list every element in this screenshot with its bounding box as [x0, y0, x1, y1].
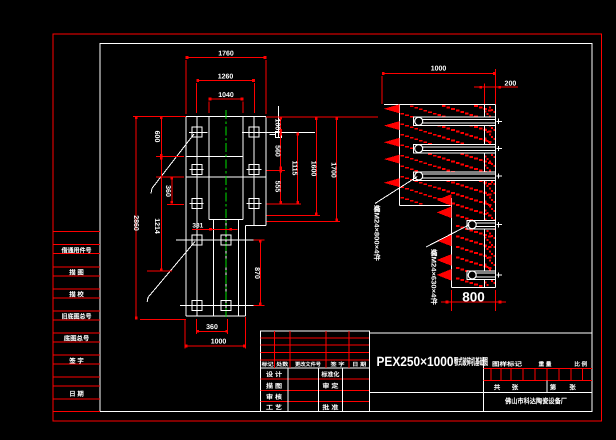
svg-text:螺M24×630×4件: 螺M24×630×4件	[430, 249, 438, 305]
svg-text:比 例: 比 例	[574, 360, 587, 368]
dim 560	[280, 133, 282, 170]
svg-text:标准化: 标准化	[320, 371, 340, 379]
anchor bolt square at (196.8,203.6)	[192, 199, 202, 209]
leader line from bolt row4	[147, 242, 195, 303]
dim 1000 bottom	[184, 319, 186, 349]
plate interior lines	[186, 156, 243, 158]
svg-text:360: 360	[164, 185, 171, 197]
svg-text:工 艺: 工 艺	[266, 404, 282, 412]
svg-text:签 字: 签 字	[329, 361, 344, 368]
svg-text:螺M24×800×4件: 螺M24×800×4件	[373, 205, 381, 261]
bolt centreline verticals	[196, 116, 198, 316]
dim 1700	[336, 117, 338, 221]
dim 870	[254, 239, 265, 241]
hatch: steeper dashes in 200 wall strip	[489, 106, 491, 108]
dim 1760	[185, 60, 187, 114]
leader to M24x800 bolts	[375, 177, 417, 204]
outer red border frame	[53, 34, 602, 421]
anchor bolt square at (196.8,305.4)	[192, 300, 202, 310]
svg-text:1040: 1040	[218, 92, 234, 99]
svg-text:PEX250×1000: PEX250×1000	[377, 354, 454, 369]
horizontal anchor bolt at y=121.3	[414, 117, 496, 126]
anchor bolt square at (196.8,131.9)	[192, 127, 202, 137]
dim 100	[280, 116, 282, 132]
horizontal anchor bolt at y=224.7	[467, 220, 495, 229]
dim 2860	[133, 115, 186, 117]
svg-text:设 计: 设 计	[266, 371, 283, 379]
dim 200	[484, 84, 486, 104]
svg-text:600: 600	[153, 131, 160, 143]
svg-text:日 期: 日 期	[352, 361, 366, 368]
dim 1214	[160, 157, 162, 272]
svg-text:描 校: 描 校	[69, 291, 84, 299]
dim 1040	[208, 102, 210, 114]
svg-text:800: 800	[462, 290, 485, 305]
dim 1600	[315, 117, 317, 216]
inner white border frame	[100, 44, 592, 412]
svg-text:张: 张	[512, 383, 519, 391]
dim 1000 top	[381, 76, 383, 104]
break-line triangles upper column	[384, 104, 400, 113]
dim 800	[450, 290, 452, 311]
svg-text:重 量: 重 量	[539, 361, 552, 368]
svg-text:描 图: 描 图	[69, 269, 84, 277]
svg-text:360: 360	[206, 324, 218, 331]
svg-text:第: 第	[550, 383, 557, 391]
svg-text:1260: 1260	[218, 74, 234, 81]
concrete outline	[384, 104, 496, 106]
svg-text:处数: 处数	[275, 361, 289, 368]
horizontal anchor bolt at y=176.0	[414, 172, 496, 181]
right sub-table	[482, 357, 484, 411]
leader line from bolt row1	[151, 134, 194, 194]
svg-text:1000: 1000	[211, 339, 227, 346]
svg-text:旧底图总号: 旧底图总号	[62, 313, 93, 321]
svg-text:日 期: 日 期	[69, 390, 84, 398]
anchor bolt square at (254.0,203.6)	[249, 199, 259, 209]
svg-text:200: 200	[505, 81, 517, 88]
svg-text:签 字: 签 字	[68, 357, 84, 365]
svg-text:批 准: 批 准	[322, 404, 339, 412]
dim 381	[192, 228, 237, 230]
svg-text:标记: 标记	[260, 361, 274, 368]
white extension vertical	[278, 106, 280, 138]
title area right part	[370, 333, 592, 411]
dim 555	[280, 169, 282, 203]
left margin binding strip rows	[53, 231, 100, 233]
dim 360 bottom	[196, 319, 198, 334]
bolt row cross lines	[189, 131, 208, 133]
green centreline	[225, 110, 227, 318]
anchor bolt square at (226.2,239.9)	[221, 235, 231, 245]
svg-text:更改文件号: 更改文件号	[295, 361, 321, 368]
red extension lines right side	[266, 116, 378, 118]
svg-text:1000: 1000	[431, 66, 447, 73]
break-line triangles lower column	[437, 194, 452, 206]
small bolt square on dim line row1	[276, 132, 282, 138]
anchor bolt square at (196.8,239.9)	[192, 235, 202, 245]
plate outline	[186, 115, 266, 117]
svg-text:借通用件号: 借通用件号	[61, 246, 93, 254]
horizontal anchor bolt at y=275.0	[467, 271, 495, 280]
horizontal anchor bolt at y=148.6	[414, 144, 496, 153]
svg-text:审 核: 审 核	[266, 393, 283, 401]
anchor bolt square at (196.8,169.4)	[192, 164, 202, 174]
anchor bolt square at (254.0,131.9)	[249, 127, 259, 137]
anchor bolt square at (254.0,169.4)	[249, 164, 259, 174]
svg-text:870: 870	[253, 267, 260, 279]
leader to M24x630 bolts	[426, 225, 469, 247]
svg-text:560: 560	[274, 145, 281, 157]
svg-text:1214: 1214	[153, 218, 160, 234]
svg-text:2860: 2860	[132, 215, 139, 231]
svg-text:555: 555	[274, 181, 281, 193]
svg-text:审 定: 审 定	[322, 382, 339, 390]
svg-text:张: 张	[569, 383, 576, 391]
dim 1115	[297, 133, 299, 204]
svg-text:1600: 1600	[309, 161, 316, 177]
svg-text:佛山市科达陶瓷设备厂: 佛山市科达陶瓷设备厂	[504, 397, 567, 406]
revision table left part	[261, 331, 370, 411]
svg-text:381: 381	[192, 223, 203, 230]
dim 1260	[196, 83, 198, 113]
svg-text:底图总号: 底图总号	[64, 335, 90, 343]
svg-text:描 图: 描 图	[266, 382, 282, 390]
svg-text:图样标记: 图样标记	[492, 360, 522, 368]
svg-text:100: 100	[274, 119, 281, 131]
svg-text:1115: 1115	[291, 161, 298, 176]
svg-text:共: 共	[494, 383, 501, 391]
svg-text:1760: 1760	[218, 51, 234, 58]
dim 360 left	[171, 177, 173, 204]
anchor bolt square at (226.2,305.4)	[221, 300, 231, 310]
svg-text:1700: 1700	[330, 162, 337, 178]
hatch: concrete fill dashes	[474, 105, 478, 107]
dim 600	[160, 116, 162, 156]
